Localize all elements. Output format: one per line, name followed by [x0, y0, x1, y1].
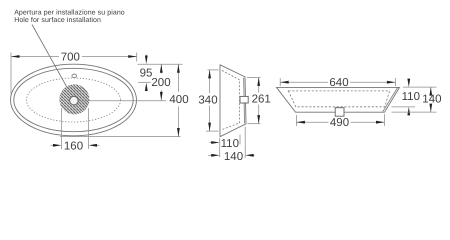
dotted bowl ellipse (top view) — [27, 78, 121, 122]
svg-text:110: 110 — [221, 138, 239, 150]
dimension 140 (front view) — [392, 87, 442, 112]
centerline from drain ring to 200 dimension — [78, 100, 166, 102]
svg-text:160: 160 — [64, 140, 83, 152]
dimension 400 — [60, 64, 189, 136]
dimension 160 — [51, 108, 100, 152]
front view hidden inner profile (dashed) — [288, 91, 389, 107]
svg-text:140: 140 — [224, 151, 243, 163]
front view drain — [335, 108, 344, 117]
inner rim ellipse (top view) — [14, 68, 133, 131]
svg-text:200: 200 — [151, 77, 170, 89]
svg-text:640: 640 — [329, 77, 348, 89]
side view hidden inner profile (dashed) — [222, 70, 240, 129]
dimension 110 (front view) — [392, 79, 437, 116]
dimension 95 — [138, 55, 183, 92]
dimension 140 (side view) — [208, 127, 255, 163]
svg-text:Apertura per installazione su: Apertura per installazione su piano — [14, 8, 125, 16]
dimension 700 — [11, 52, 137, 95]
dimension 490 — [296, 114, 384, 129]
svg-text:110: 110 — [402, 91, 420, 103]
side view outline — [220, 65, 246, 137]
hatched installation hole — [59, 84, 89, 114]
dimension 110 (side view) — [210, 135, 241, 158]
svg-text:140: 140 — [422, 94, 441, 106]
dimension 261 — [247, 77, 271, 123]
side view overflow bracket — [240, 96, 248, 103]
dimension 640 — [280, 77, 395, 89]
faucet hole — [72, 74, 77, 78]
svg-text:261: 261 — [252, 94, 271, 106]
svg-text:400: 400 — [169, 94, 188, 106]
svg-text:700: 700 — [61, 52, 80, 64]
outer rim ellipse (top view) — [11, 64, 137, 136]
front view outline — [277, 87, 400, 112]
dimension 340 — [198, 70, 218, 131]
label text: Apertura per installazione su piano / Hole for surface installation — [14, 8, 125, 23]
svg-text:340: 340 — [198, 94, 217, 106]
svg-text:490: 490 — [330, 117, 349, 129]
dimension 200 — [151, 64, 170, 100]
front view rim inner lip line — [383, 88, 398, 112]
svg-text:Hole for surface installation: Hole for surface installation — [14, 16, 101, 24]
leader line from label to installation hole — [32, 25, 73, 98]
drain center ring — [70, 96, 79, 105]
